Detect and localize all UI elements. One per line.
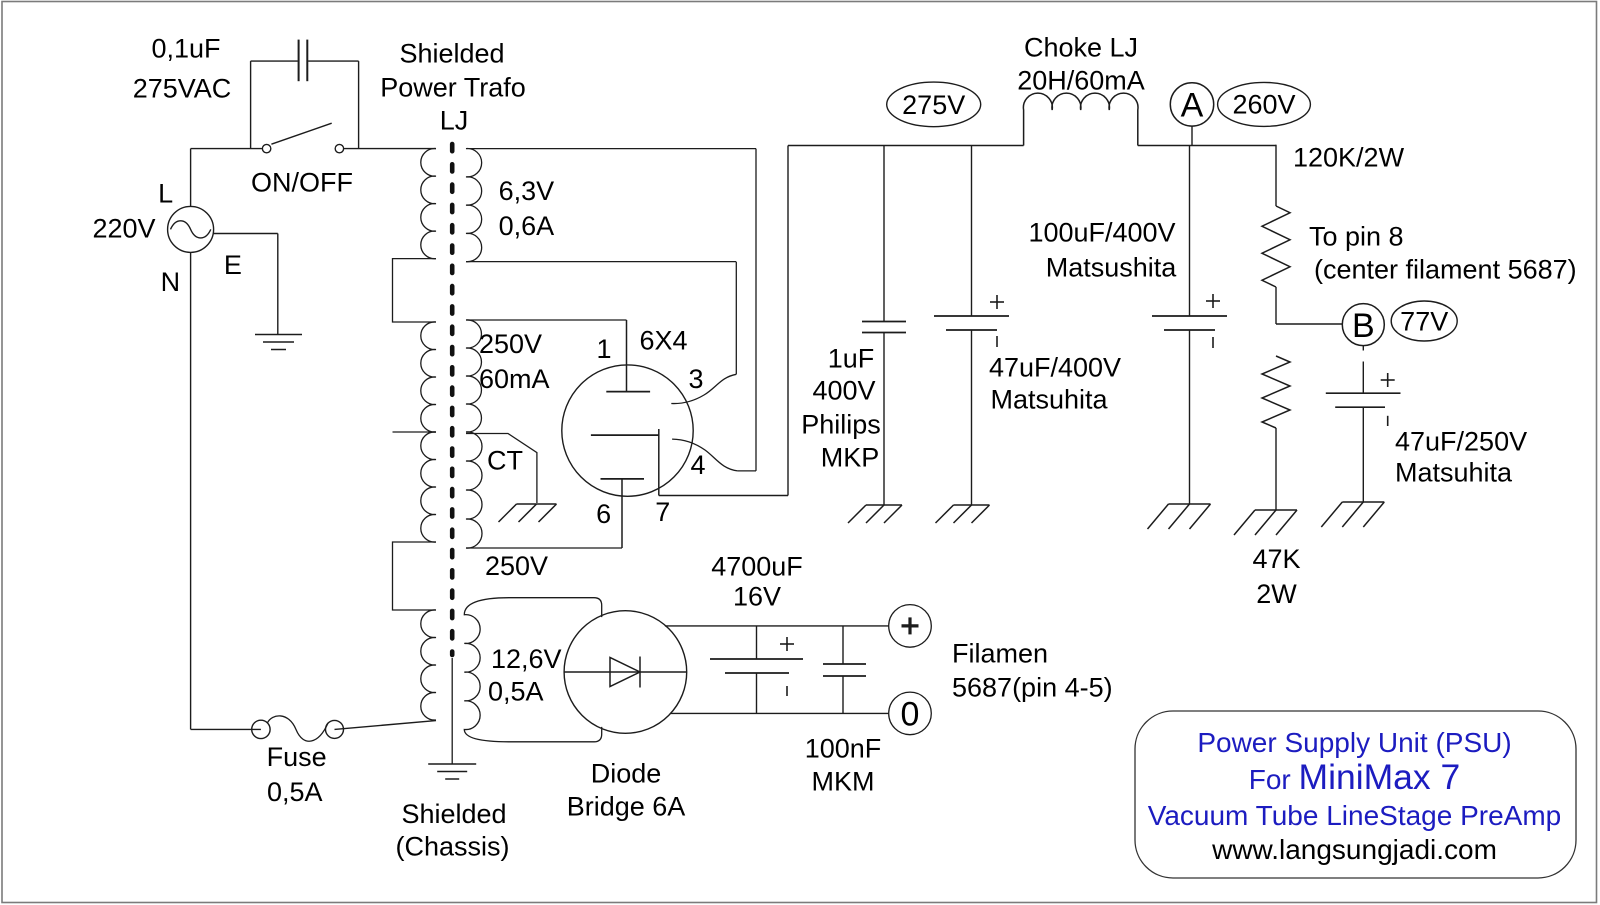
wire 6,3V bottom [466,261,736,263]
trafo primary winding section 2 [421,322,436,432]
svg-text:Shielded: Shielded [399,39,504,69]
resistor 120K/2W [1262,206,1290,287]
svg-text:ON/OFF: ON/OFF [251,167,353,197]
trafo primary step 1 [393,259,437,322]
capacitor 1uF wire top [883,146,885,322]
tube 6X4 envelope [562,365,693,496]
svg-text:Matsushita: Matsushita [1046,252,1178,282]
svg-text:B: B [1352,307,1375,345]
svg-text:Vacuum Tube LineStage PreAmp: Vacuum Tube LineStage PreAmp [1148,800,1562,831]
svg-text:(Chassis): (Chassis) [395,831,509,861]
capacitor 47uF/250V wire bottom [1362,407,1364,502]
svg-text:Bridge 6A: Bridge 6A [567,791,686,821]
svg-text:4: 4 [690,450,705,480]
svg-text:47uF/400V: 47uF/400V [989,352,1121,382]
capacitor 100uF wire bottom [1189,330,1191,504]
node A circle [1170,83,1213,126]
svg-text:47K: 47K [1252,544,1300,574]
trafo primary winding section 4 [421,610,436,720]
switch ON/OFF [262,144,270,152]
capacitor 47uF/250V [1326,392,1401,394]
plus 100uF [1206,300,1220,302]
trafo secondary 6,3V winding [466,149,756,262]
wire R2 to ground [1275,428,1277,510]
wire fuse to trafo [335,721,437,730]
minus 4700uF [786,686,788,696]
svg-text:CT: CT [487,446,523,476]
svg-text:LJ: LJ [440,105,469,135]
tube cathode pin7 [591,434,659,436]
svg-text:250V: 250V [479,329,542,359]
svg-text:1uF: 1uF [828,343,875,373]
heater pin3 squiggle [671,374,736,403]
transformer shield dashed line [450,144,455,655]
minus 47uF/400V [996,336,998,347]
wire N down to fuse [190,252,192,729]
node 275V ellipse [887,82,981,127]
svg-text:1: 1 [596,334,611,364]
svg-text:L: L [158,179,173,209]
svg-text:Filamen: Filamen [952,638,1048,668]
plus 47uF/250V [1381,379,1395,381]
ground earth E [255,334,302,336]
trafo secondary 12,6V winding [464,598,601,742]
wire cathode to B+ rail [659,495,788,497]
wire pin4 to 6,3V top [738,470,756,472]
svg-text:0,1uF: 0,1uF [151,33,220,63]
svg-text:6,3V: 6,3V [499,176,555,206]
svg-text:0: 0 [901,696,920,734]
svg-text:7: 7 [655,497,670,527]
heater pin4 squiggle [672,439,738,471]
svg-text:N: N [161,267,181,297]
terminal plus [889,605,932,648]
svg-text:4700uF: 4700uF [711,551,803,581]
svg-text:260V: 260V [1232,90,1295,120]
svg-text:(center filament 5687): (center filament 5687) [1314,254,1577,284]
wire 250V bottom to plate6 [466,547,622,549]
svg-text:5687(pin 4-5): 5687(pin 4-5) [952,672,1113,702]
svg-text:2W: 2W [1256,579,1297,609]
svg-text:275VAC: 275VAC [133,73,232,103]
node 77V ellipse [1391,301,1457,341]
ground R2 [1255,509,1297,511]
svg-text:www.langsungjadi.com: www.langsungjadi.com [1211,834,1497,865]
trafo primary step 2 [393,542,437,610]
ground chassis CT [517,503,557,505]
capacitor 1uF 400V Philips MKP [862,321,906,323]
plus 47uF/400V [990,301,1004,303]
svg-text:275V: 275V [902,90,965,120]
trafo primary tap stub [393,431,437,433]
trafo primary winding section 1 [421,149,436,259]
svg-text:MKM: MKM [812,766,875,796]
fuse 0,5A [252,720,270,738]
choke LJ 20H/60mA [1023,93,1138,145]
capacitor 100uF/400V [1152,315,1227,317]
capacitor 47uF/400V [934,315,1009,317]
svg-text:0,5A: 0,5A [267,777,323,807]
svg-text:250V: 250V [485,551,548,581]
B+ rail left [788,145,1024,147]
wire switch to trafo [344,148,436,150]
capacitor 0,1uF 275VAC bypass [250,61,252,149]
svg-text:Shielded: Shielded [401,799,506,829]
trafo secondary 250V lower winding [466,432,482,548]
svg-text:E: E [224,250,242,280]
trafo CT tap [466,434,537,504]
trafo primary winding section 3 [421,432,436,542]
svg-text:20H/60mA: 20H/60mA [1017,65,1145,95]
svg-text:Matsuhita: Matsuhita [1395,457,1513,487]
ground 47uF/250V [1342,501,1384,503]
svg-text:120K/2W: 120K/2W [1293,142,1405,172]
bridge output 0 wire [671,712,889,714]
shield wire to chassis [451,658,453,764]
wire 6,3V to pin3 [735,262,737,375]
node 260V ellipse [1218,82,1311,126]
ground 1uF [866,504,902,506]
capacitor 100uF/400V wire top [1189,146,1191,317]
resistor 47K 2W [1262,356,1290,428]
capacitor 1uF wire bottom [883,333,885,506]
wire E to ground [213,233,278,235]
tube plate pin6 [601,478,645,480]
capacitor 100nF MKM [842,626,844,664]
svg-text:Fuse: Fuse [267,742,327,772]
svg-text:12,6V: 12,6V [491,644,562,674]
trafo secondary 250V upper winding [466,320,481,432]
svg-text:16V: 16V [733,581,781,611]
svg-text:100uF/400V: 100uF/400V [1028,217,1175,247]
svg-text:6X4: 6X4 [639,326,687,356]
bridge output + wire [665,625,889,627]
svg-text:60mA: 60mA [479,364,550,394]
wire R1 to node B junction [1275,287,1277,324]
info box [1135,711,1576,878]
wire 250V top to plate [466,319,627,321]
svg-text:To pin 8: To pin 8 [1309,221,1404,251]
svg-text:MKP: MKP [821,442,880,472]
svg-text:47uF/250V: 47uF/250V [1395,426,1527,456]
svg-text:3: 3 [688,364,703,394]
node B circle [1342,304,1384,346]
bridge diode [610,658,640,687]
diode bridge circle [564,611,687,734]
wire node B to cap [1362,346,1364,351]
svg-text:Choke LJ: Choke LJ [1024,32,1138,62]
svg-text:77V: 77V [1400,306,1448,336]
minus 47uF/250V [1387,416,1389,426]
capacitor 47uF/400V wire top [971,146,973,317]
ground earth chassis [428,763,476,765]
svg-text:Philips: Philips [801,409,881,439]
svg-text:Power Supply Unit (PSU): Power Supply Unit (PSU) [1197,727,1511,758]
svg-text:Diode: Diode [591,758,662,788]
svg-text:A: A [1181,87,1204,125]
tube plate pin1 [626,320,628,392]
wire L to switch [190,149,192,207]
svg-text:Power Trafo: Power Trafo [380,72,526,102]
AC source 220V [168,206,214,252]
svg-text:100nF: 100nF [805,733,882,763]
svg-text:0,5A: 0,5A [488,677,544,707]
ground 47uF/400V [954,504,990,506]
svg-text:0,6A: 0,6A [499,211,555,241]
terminal 0 [889,692,932,735]
svg-text:220V: 220V [92,213,155,243]
svg-text:6: 6 [596,499,611,529]
capacitor 47uF/400V wire bottom [971,330,973,505]
svg-text:Matsuhita: Matsuhita [990,384,1108,414]
ground 100uF [1169,503,1211,505]
wire junction to node B [1276,323,1342,325]
wire rail to R1 [1275,145,1277,206]
B+ rail right [1138,145,1276,147]
capacitor 4700uF 16V [756,626,758,659]
plus 4700uF [780,643,794,645]
svg-text:400V: 400V [812,375,875,405]
minus 100uF [1212,337,1214,348]
bridge internal wire [564,671,687,673]
